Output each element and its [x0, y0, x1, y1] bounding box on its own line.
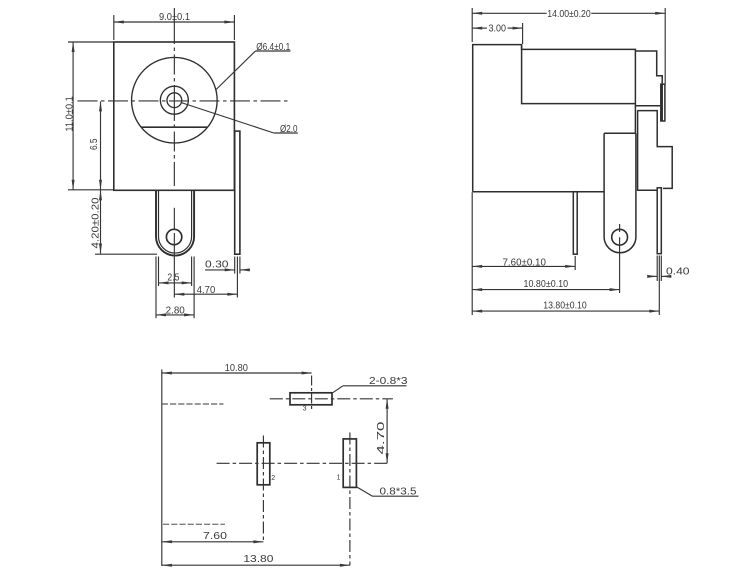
- svg-text:3.00: 3.00: [489, 23, 507, 34]
- svg-text:0.8*3.5: 0.8*3.5: [380, 486, 418, 497]
- svg-text:6.5: 6.5: [89, 138, 100, 150]
- svg-text:13.80±0.10: 13.80±0.10: [543, 301, 587, 312]
- svg-text:Ø6.4±0.1: Ø6.4±0.1: [256, 42, 290, 53]
- svg-text:4.20±0.20: 4.20±0.20: [90, 197, 101, 248]
- svg-text:4.70: 4.70: [197, 285, 216, 296]
- svg-text:10.80: 10.80: [225, 363, 248, 374]
- svg-text:2.5: 2.5: [167, 273, 179, 284]
- svg-text:2: 2: [271, 475, 275, 482]
- svg-text:2.80: 2.80: [166, 305, 186, 316]
- svg-text:1: 1: [337, 475, 341, 482]
- svg-text:Ø2.0: Ø2.0: [280, 124, 298, 135]
- svg-text:0.40: 0.40: [666, 267, 690, 278]
- svg-text:2-0.8*3: 2-0.8*3: [369, 376, 408, 387]
- svg-text:9.0±0.1: 9.0±0.1: [159, 12, 190, 23]
- svg-text:3: 3: [303, 406, 307, 413]
- svg-text:7.60±0.10: 7.60±0.10: [503, 257, 547, 268]
- svg-text:7.60: 7.60: [203, 531, 228, 542]
- svg-text:4.70: 4.70: [376, 421, 387, 455]
- svg-text:10.80±0.10: 10.80±0.10: [524, 279, 569, 290]
- svg-text:0.30: 0.30: [205, 260, 229, 271]
- svg-text:14.00±0.20: 14.00±0.20: [547, 9, 591, 20]
- svg-text:13.80: 13.80: [243, 554, 274, 565]
- svg-text:11.0±0.1: 11.0±0.1: [65, 96, 76, 132]
